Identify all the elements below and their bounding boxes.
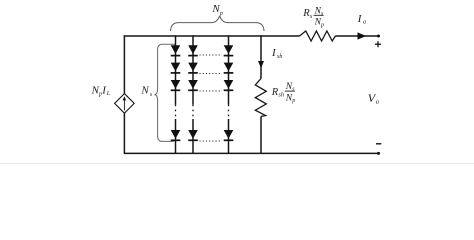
dotted continuation row 2 xyxy=(200,73,223,75)
svg-text:sh: sh xyxy=(277,54,282,60)
svg-text:sh: sh xyxy=(278,92,284,99)
resistor Rs (zigzag, top) xyxy=(300,31,336,41)
wire: top bus (left section) xyxy=(124,35,300,37)
svg-text:I: I xyxy=(357,13,363,25)
svg-text:s: s xyxy=(150,92,153,98)
svg-text:a: a xyxy=(363,20,366,26)
wire: shunt branch lower lead xyxy=(260,116,262,153)
node: positive terminal xyxy=(377,35,380,38)
label - xyxy=(376,143,381,145)
wire: shunt branch upper lead xyxy=(260,35,262,78)
svg-text:s: s xyxy=(321,11,324,17)
svg-text:I: I xyxy=(271,47,277,59)
dotted continuation row 4 xyxy=(200,140,223,142)
diode D1-4 xyxy=(171,130,181,140)
diode D3-4 xyxy=(224,130,234,140)
current arrow Ish xyxy=(258,61,264,68)
svg-text:p: p xyxy=(291,98,295,104)
svg-text:s: s xyxy=(310,13,313,20)
dotted continuation row 1 xyxy=(200,54,223,56)
diode D1-1 xyxy=(171,45,181,55)
wire: top bus (right section after Rs) xyxy=(335,35,378,37)
wire: diode column 3 xyxy=(228,35,230,104)
diode D2-4 xyxy=(188,130,198,140)
brace Ns (left bracket around series diodes) xyxy=(154,44,175,141)
diode D1-3 xyxy=(171,80,181,90)
node: negative terminal xyxy=(377,152,380,155)
svg-text:L: L xyxy=(106,91,111,97)
diode D3-2 xyxy=(224,63,234,73)
diode D3-1 xyxy=(224,45,234,55)
current source (diamond) NpIL xyxy=(115,94,135,114)
wire: left branch lower lead xyxy=(123,113,125,153)
svg-text:s: s xyxy=(292,87,295,93)
label Rsh Ns/Np xyxy=(271,82,295,104)
resistor Rsh (zigzag) xyxy=(255,79,266,117)
svg-text:p: p xyxy=(219,11,223,17)
wire: bottom bus xyxy=(124,152,379,154)
label + xyxy=(375,41,381,47)
label Rs Ns/Np xyxy=(302,6,324,28)
diode D2-2 xyxy=(188,63,198,73)
wire: diode column 1 xyxy=(175,35,177,104)
label NpIL xyxy=(91,85,111,98)
diode D2-1 xyxy=(188,45,198,55)
svg-text:N: N xyxy=(140,84,149,96)
dotted continuation row 3 xyxy=(200,90,223,92)
brace Np (top, spanning parallel branches) xyxy=(171,16,265,31)
current arrow Ia xyxy=(358,32,367,39)
diode D3-3 xyxy=(224,80,234,90)
svg-text:p: p xyxy=(320,22,324,28)
svg-text:a: a xyxy=(376,98,379,105)
wire: diode column 2 xyxy=(192,35,194,104)
diode D2-3 xyxy=(188,80,198,90)
diode D1-2 xyxy=(171,63,181,73)
wire: left branch upper lead xyxy=(123,35,125,94)
